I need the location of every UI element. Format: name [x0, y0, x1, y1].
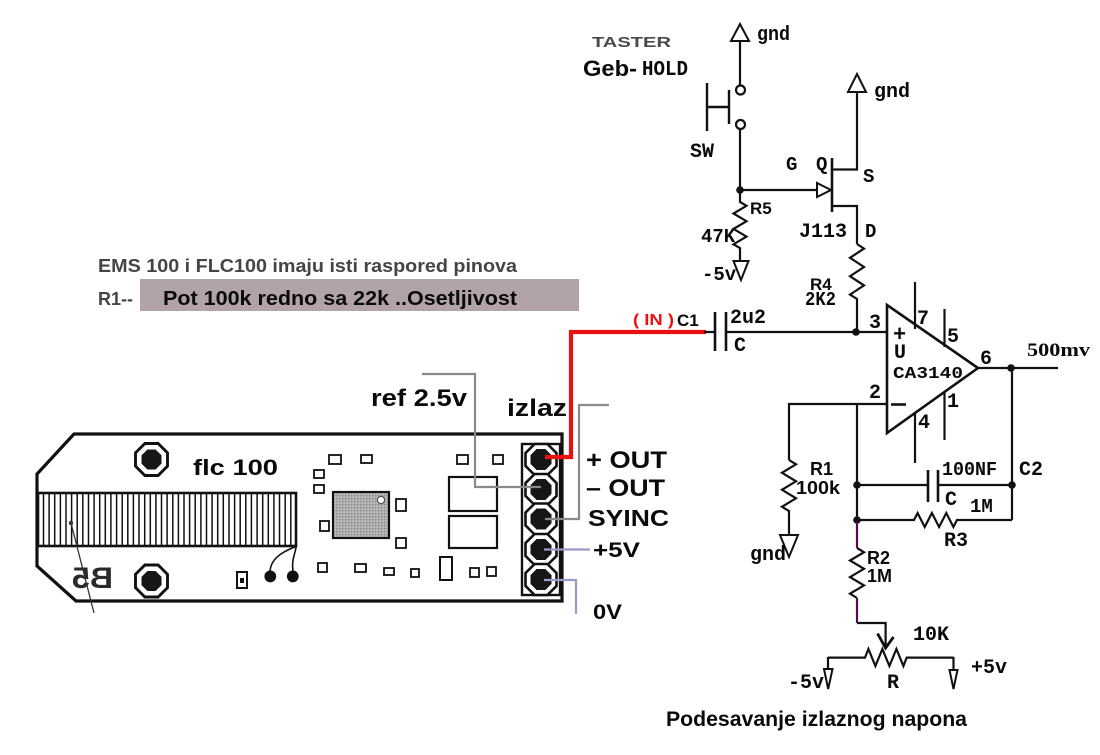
svg-text:G: G — [786, 154, 797, 176]
svg-text:gnd: gnd — [874, 81, 910, 104]
mounting pad top — [136, 444, 168, 476]
J113 source lead — [832, 92, 857, 170]
mirrored silkscreen B5 — [72, 562, 113, 595]
header pin 3 — [526, 504, 557, 535]
resistor R1 — [782, 460, 796, 535]
J113 channel — [831, 158, 834, 212]
svg-text:R1--: R1-- — [98, 289, 133, 309]
-5v arrow under R5 — [734, 261, 749, 280]
wire to wiper — [857, 623, 886, 646]
ref 2.5v gray wire — [422, 374, 541, 487]
J113 drain lead — [832, 206, 857, 244]
transistor Q1 J113 gate arrow — [817, 183, 831, 197]
svg-text:gnd: gnd — [757, 24, 790, 47]
-5v arrow left — [827, 657, 829, 669]
svg-text:HOLD: HOLD — [642, 59, 688, 82]
feedback vertical wire — [856, 404, 858, 521]
+5v arrow right — [952, 657, 954, 670]
red wire izlaz to C1 — [545, 332, 706, 457]
svg-text:500mv: 500mv — [1027, 340, 1091, 361]
svg-text:R3: R3 — [944, 530, 968, 553]
header pin 1 — [526, 444, 557, 475]
smd pad — [329, 455, 341, 464]
smd pad — [361, 455, 372, 463]
switch SW contact bottom — [736, 120, 745, 129]
svg-text:+5V: +5V — [593, 539, 640, 562]
output junction — [1007, 364, 1015, 372]
solder dot A — [264, 571, 276, 583]
header pin 4 — [526, 534, 557, 565]
svg-text:3: 3 — [869, 312, 881, 335]
chip pin1 mark — [377, 496, 384, 503]
svg-text:2: 2 — [869, 382, 881, 405]
svg-text:C2: C2 — [1019, 459, 1043, 482]
ground symbol at source — [848, 74, 866, 92]
svg-text:B5: B5 — [72, 562, 113, 595]
switch SW actuator — [706, 83, 708, 131]
svg-text:0V: 0V — [593, 601, 622, 624]
svg-text:1M: 1M — [867, 566, 892, 586]
svg-text:J113: J113 — [799, 221, 847, 244]
svg-text:Pot 100k redno sa 22k ..Osetl: Pot 100k redno sa 22k ..Osetljivost — [163, 288, 517, 310]
white box 2 — [449, 516, 497, 548]
svg-text:7: 7 — [917, 308, 929, 331]
svg-text:R1: R1 — [810, 459, 833, 479]
header block — [522, 444, 560, 595]
highlight bar — [140, 279, 579, 311]
resistor R3 — [857, 513, 1012, 527]
small part with dot — [237, 572, 247, 588]
resistor R2 — [850, 548, 864, 598]
svg-text:C: C — [945, 489, 957, 512]
wire switch to node — [739, 129, 741, 190]
wire to C2 — [857, 484, 928, 486]
junction pin3 — [852, 328, 860, 336]
wiper arrow — [878, 634, 894, 649]
wire gnd to switch — [739, 41, 741, 86]
svg-text:U: U — [894, 342, 906, 365]
svg-text:S: S — [863, 166, 874, 188]
junction C2 left — [853, 481, 861, 489]
svg-text:TASTER: TASTER — [592, 34, 671, 51]
wavy wire B — [293, 547, 296, 572]
svg-text:– OUT: – OUT — [586, 475, 665, 502]
node junction — [736, 186, 744, 194]
svg-text:1M: 1M — [970, 496, 993, 518]
resistor R4 — [850, 244, 864, 332]
op-amp U1 CA3140 — [887, 305, 978, 433]
svg-text:ref 2.5v: ref 2.5v — [371, 385, 468, 412]
ground symbol under R1 — [780, 535, 798, 557]
svg-text:CA3140: CA3140 — [893, 365, 963, 384]
0V label wire — [544, 580, 576, 614]
svg-text:Q: Q — [816, 154, 827, 176]
svg-text:Podesavanje izlaznog napona: Podesavanje izlaznog napona — [666, 708, 967, 731]
IC chip (hatched) — [333, 492, 389, 538]
svg-text:izlaz: izlaz — [507, 395, 567, 422]
svg-text:6: 6 — [980, 348, 992, 371]
switch SW contact top — [736, 86, 745, 95]
smd pad — [314, 470, 324, 478]
smd pad — [320, 521, 329, 531]
junction C2 right — [1008, 481, 1016, 489]
smd pad — [396, 499, 406, 511]
wire node to gate — [740, 189, 817, 191]
feedback right vertical — [1011, 368, 1013, 520]
svg-text:2u2: 2u2 — [730, 307, 766, 330]
purple wire to R2 — [856, 522, 858, 548]
svg-text:+5v: +5v — [971, 657, 1007, 680]
resistor R5 — [734, 190, 747, 261]
pin 5 — [943, 309, 945, 347]
smd component tall — [440, 557, 452, 580]
pointer line through B5 — [71, 523, 94, 613]
svg-text:SW: SW — [690, 141, 714, 164]
smd pad — [411, 569, 419, 577]
ground symbol top (switch) — [731, 24, 749, 41]
smd pad — [493, 455, 503, 464]
smd pad — [487, 567, 496, 576]
svg-text:EMS 100 i FLC100 imaju isti r: EMS 100 i FLC100 imaju isti raspored pin… — [98, 256, 518, 276]
svg-text:1: 1 — [947, 391, 959, 414]
solder dot B — [287, 571, 299, 583]
smd pad — [396, 538, 406, 548]
svg-text:R5: R5 — [750, 199, 772, 218]
PCB board outline flc100 — [37, 434, 562, 601]
pin 1 — [943, 392, 945, 440]
svg-text:D: D — [865, 221, 876, 243]
smd pad — [384, 568, 394, 575]
header pin 2 — [526, 474, 557, 505]
smd pad — [457, 455, 468, 464]
svg-text:+ OUT: + OUT — [586, 447, 667, 474]
sensor strip (hatched coil) — [38, 493, 296, 546]
smd pad — [470, 568, 479, 577]
output wire pin 6 — [978, 367, 1058, 369]
header pin 5 — [526, 564, 557, 595]
svg-text:C1: C1 — [677, 311, 699, 330]
svg-text:flc 100: flc 100 — [193, 455, 278, 480]
wire C1 to pin3 — [726, 331, 887, 333]
izlaz gray wire — [545, 405, 609, 519]
purple wire R2 bottom — [856, 598, 858, 623]
junction R3 left — [853, 516, 861, 524]
svg-text:10K: 10K — [913, 624, 949, 647]
svg-text:R2: R2 — [867, 548, 890, 568]
svg-text:-5v: -5v — [788, 672, 824, 695]
svg-text:100k: 100k — [796, 478, 841, 498]
svg-text:C: C — [734, 335, 746, 358]
svg-text:47K: 47K — [701, 226, 736, 248]
svg-text:( IN ): ( IN ) — [633, 312, 674, 329]
wire pin2 — [789, 404, 887, 460]
svg-text:2K2: 2K2 — [805, 289, 836, 311]
capacitor C2 100NF — [927, 470, 930, 502]
svg-text:5: 5 — [947, 326, 959, 349]
svg-text:R: R — [887, 672, 899, 695]
svg-text:100NF: 100NF — [942, 459, 997, 481]
smd pad — [318, 563, 327, 572]
svg-text:SYINC: SYINC — [588, 505, 669, 531]
pin 7 — [914, 282, 916, 329]
+5V label wire — [544, 548, 590, 550]
smd pad — [314, 485, 324, 493]
svg-text:-5v: -5v — [702, 264, 737, 286]
svg-text:4: 4 — [918, 412, 930, 435]
white box 1 — [449, 477, 497, 511]
potentiometer 10K — [828, 649, 954, 666]
capacitor C1 — [714, 312, 717, 351]
svg-text:Geb-: Geb- — [583, 56, 637, 81]
pin 4 — [914, 413, 916, 463]
mounting pad bottom — [136, 565, 168, 597]
wavy wire A — [270, 547, 296, 572]
svg-text:gnd: gnd — [750, 544, 786, 567]
smd pad — [355, 564, 366, 572]
